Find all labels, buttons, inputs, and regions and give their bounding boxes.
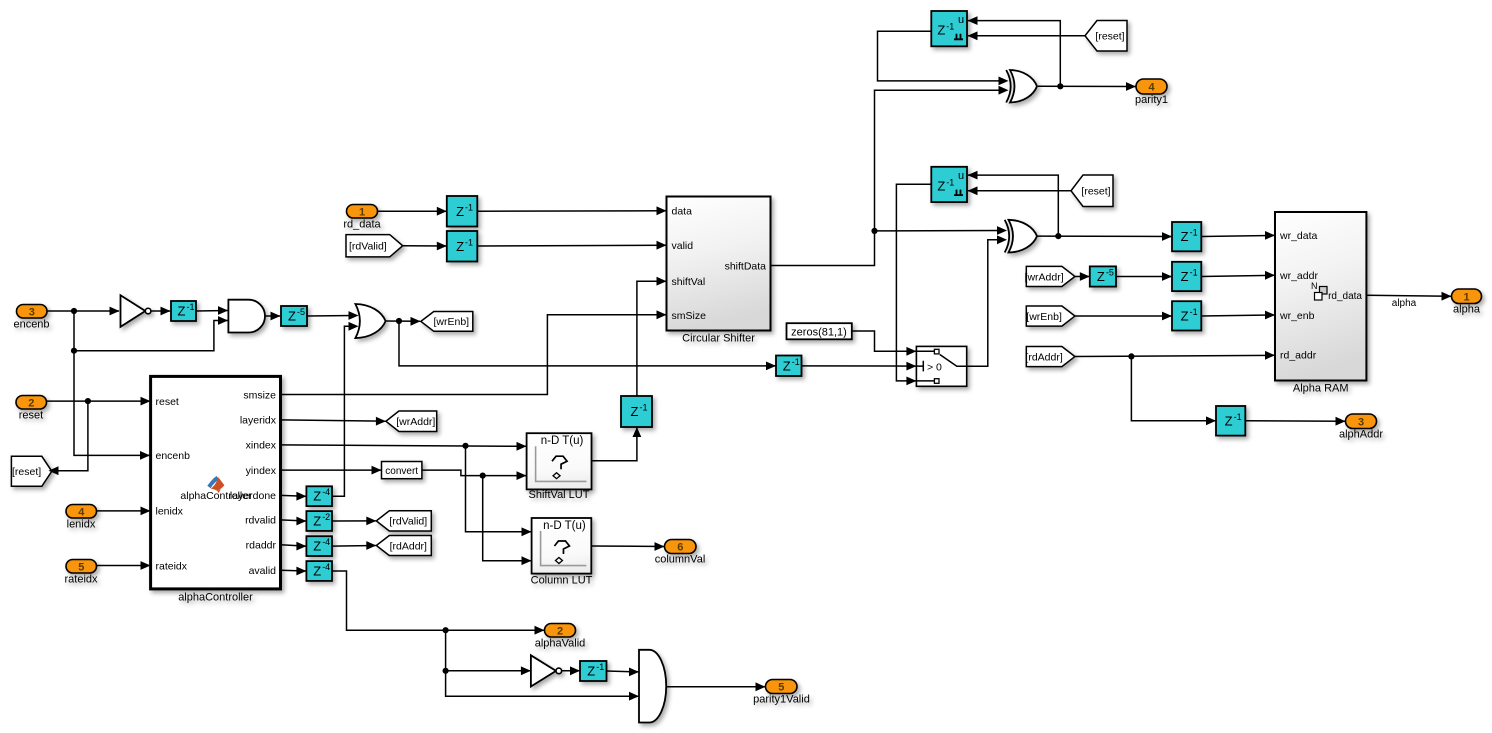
delay Z-1 (rd_data) [447, 196, 478, 227]
wire rd_data to Z-1 [378, 207, 447, 216]
wire encenb to NOT [47, 307, 120, 316]
svg-text:wr_data: wr_data [1279, 230, 1318, 242]
wire shiftData to XOR gates [771, 86, 1009, 266]
wire RAM rd_data to alpha port [1366, 292, 1451, 309]
switch block [916, 346, 966, 386]
svg-text:shiftVal: shiftVal [672, 276, 706, 288]
labels alphaController ports [156, 389, 277, 577]
svg-text:avalid: avalid [249, 565, 277, 577]
svg-text:Z: Z [1181, 269, 1189, 284]
inport 3 encenb [13, 305, 49, 331]
wire Z-1 to RAM wr_addr [1201, 271, 1275, 280]
svg-text:alphaController: alphaController [180, 490, 252, 502]
wire shiftData branch to XOR2 in1 [875, 226, 1008, 235]
svg-text:Z: Z [1181, 308, 1189, 323]
wire XOR2 feedback to delay2 [968, 171, 1059, 236]
svg-text:Z: Z [288, 309, 296, 324]
svg-text:-1: -1 [465, 202, 473, 212]
svg-text:Z: Z [313, 514, 321, 529]
svg-text:Z: Z [783, 358, 791, 373]
delay Z-2 (rdvalid) [306, 511, 332, 531]
svg-text:Z: Z [631, 404, 639, 419]
XOR gate (wr_data accumulator) [1005, 220, 1037, 253]
delay Z-1 (switch control) [776, 356, 802, 377]
XOR gate (parity1 accumulator) [1006, 70, 1037, 103]
goto tag [wrAddr] [386, 411, 437, 432]
wire layeridx to goto wrAddr [281, 417, 386, 426]
outport 4 parity1 [1135, 79, 1168, 106]
goto tag [rdValid] (out) [376, 511, 431, 531]
svg-text:[reset]: [reset] [1095, 31, 1124, 43]
svg-text:2: 2 [28, 397, 34, 409]
svg-text:3: 3 [29, 306, 35, 318]
svg-text:Z: Z [1181, 229, 1189, 244]
svg-text:-4: -4 [322, 562, 330, 572]
wire rdvalid to Z-2 [281, 517, 307, 526]
svg-text:alphaValid: alphaValid [535, 638, 586, 650]
svg-text:lenidx: lenidx [156, 506, 184, 518]
inport 2 reset [16, 396, 47, 422]
wire ShiftVal LUT to rotated Z-1 [592, 427, 642, 461]
svg-text:lenidx: lenidx [67, 519, 96, 531]
svg-text:columnVal: columnVal [655, 554, 706, 566]
wire from wrAddr to Z-5 [1075, 272, 1090, 281]
MATLAB function alphaController [151, 376, 281, 603]
svg-text:-5: -5 [1106, 268, 1114, 278]
outport 5 parity1Valid [753, 680, 810, 706]
svg-text:valid: valid [672, 240, 694, 252]
delay Z-1 (wr_addr) [1172, 262, 1201, 291]
svg-text:[wrAddr]: [wrAddr] [396, 416, 435, 428]
svg-text:-2: -2 [322, 512, 330, 522]
svg-text:n-D T(u): n-D T(u) [541, 435, 584, 447]
subsystem Circular Shifter [667, 197, 771, 345]
svg-text:[rdAddr]: [rdAddr] [1025, 351, 1062, 363]
from tag [rdValid] (in) [346, 235, 403, 257]
wire xindex branch to Column LUT in1 [466, 446, 532, 536]
from tag [wrAddr] (right) [1025, 266, 1075, 286]
svg-text:ShiftVal LUT: ShiftVal LUT [529, 489, 590, 501]
svg-text:[rdAddr]: [rdAddr] [390, 540, 427, 552]
svg-text:encenb: encenb [13, 319, 49, 331]
labels Alpha RAM ports [1279, 230, 1362, 361]
svg-text:4: 4 [78, 506, 85, 518]
svg-text:alphAddr: alphAddr [1339, 429, 1383, 441]
alphaController internal label + MATLAB logo [180, 476, 252, 502]
svg-text:reset: reset [19, 410, 43, 422]
svg-text:5: 5 [778, 682, 784, 694]
NOT gate (avalid inverter) [531, 655, 562, 686]
wire convert to ShiftVal LUT in2 [422, 470, 527, 480]
wire NOT to Z-1 (avalid) [562, 666, 580, 675]
delay Z-5 (after AND) [281, 306, 307, 326]
wire from rdAddr to RAM rd_addr [1075, 351, 1275, 360]
wire Z-1 to AND in1 (parity1Valid) [607, 668, 640, 677]
svg-text:Column LUT: Column LUT [531, 575, 593, 587]
svg-text:[rdValid]: [rdValid] [349, 241, 387, 253]
svg-text:Circular Shifter: Circular Shifter [682, 333, 755, 345]
wire Z-1 to alphAddr port [1245, 417, 1345, 426]
svg-text:-1: -1 [946, 22, 954, 32]
svg-text:-1: -1 [187, 302, 195, 312]
wire Z-5 to OR in1 [307, 311, 359, 320]
wire avalid to Z-4 [281, 567, 307, 576]
wire XOR1 feedback to delay1 [968, 16, 1061, 86]
svg-text:-1: -1 [946, 177, 954, 187]
wire Z-1 to Circular Shifter valid [477, 241, 666, 250]
wire Z-4 to goto rdAddr [332, 541, 376, 550]
svg-text:rd_data: rd_data [343, 219, 381, 231]
subsystem Alpha RAM [1275, 212, 1366, 395]
svg-text:[wrEnb]: [wrEnb] [433, 316, 469, 328]
OR gate (wrEnb) [355, 304, 385, 338]
svg-text:Z: Z [456, 204, 464, 219]
outport 6 columnVal [655, 540, 706, 566]
svg-text:smSize: smSize [672, 310, 707, 322]
wire Z-1 to AND in1 [196, 306, 228, 315]
svg-text:Alpha RAM: Alpha RAM [1293, 383, 1349, 395]
outport 1 alpha [1452, 289, 1482, 316]
labels Circular Shifter ports [672, 206, 767, 322]
svg-text:parity1: parity1 [1135, 94, 1168, 106]
svg-text:u: u [958, 170, 964, 182]
wire Z-5 to Z-1 wr_addr [1116, 272, 1172, 281]
svg-text:-4: -4 [322, 487, 330, 497]
svg-text:-1: -1 [1234, 412, 1242, 422]
svg-text:4: 4 [1148, 82, 1155, 94]
outport 3 alphAddr [1339, 414, 1383, 441]
wire delay2 out to switch in3 [896, 184, 931, 385]
wire OR out branch to switch-ctrl delay [399, 321, 776, 370]
wire Z-1 to RAM wr_data [1201, 231, 1275, 240]
delay Z-4 (layerdone) [306, 486, 332, 506]
delay Z-5 (wrAddr) [1090, 266, 1116, 286]
svg-text:xindex: xindex [246, 440, 277, 452]
svg-text:1: 1 [1463, 291, 1469, 303]
wire switch out to XOR2 in2 [967, 235, 1007, 366]
switch internal glyphs [916, 349, 966, 383]
svg-text:Z: Z [313, 489, 321, 504]
wire layerdone Z-4 to OR in2 [332, 322, 359, 496]
enabled delay Z-1 u (wr_data reg) [931, 167, 967, 202]
delay Z-1 (avalid-not) [580, 661, 607, 681]
svg-text:data: data [672, 206, 693, 218]
AND gate (parity1Valid) [639, 650, 666, 723]
svg-text:Z: Z [313, 539, 321, 554]
svg-text:Z: Z [178, 304, 186, 319]
svg-text:rdvalid: rdvalid [245, 515, 276, 527]
inport 5 rateidx [64, 560, 98, 586]
wire encenb branch to AND in2 [71, 311, 228, 354]
svg-text:[reset]: [reset] [12, 466, 41, 478]
wire rateidx to controller [97, 561, 151, 570]
wire zeros to switch in1 [852, 331, 917, 356]
wire AND to Z-5 [265, 312, 281, 321]
wire yindex to convert [281, 466, 382, 475]
wire encenb branch to controller [74, 351, 150, 460]
svg-text:Z: Z [1097, 269, 1105, 284]
svg-text:1: 1 [359, 206, 365, 218]
svg-text:> 0: > 0 [927, 361, 942, 373]
svg-text:-4: -4 [322, 537, 330, 547]
delay Z-1 (after NOT) [171, 301, 196, 321]
wire smsize to Circular Shifter smSize [281, 310, 667, 394]
wire layerdone to Z-4 [281, 492, 307, 501]
AND gate U1 [228, 300, 265, 333]
NOT gate (encenb inverter) [121, 295, 151, 327]
constant zeros(81,1) [787, 323, 852, 339]
svg-text:Z: Z [937, 23, 945, 38]
wire Z-2 to goto rdValid [332, 517, 376, 526]
svg-text:[wrAddr]: [wrAddr] [1025, 271, 1064, 283]
svg-text:rdaddr: rdaddr [246, 540, 277, 552]
wire reset port to controller [47, 397, 151, 406]
lookup table ShiftVal LUT [527, 433, 592, 501]
svg-text:-1: -1 [1190, 307, 1198, 317]
svg-text:[wrEnb]: [wrEnb] [1026, 311, 1062, 323]
wire rdAddr branch to Z-1 alphAddr [1131, 356, 1216, 425]
goto tag [rdAddr] (out) [376, 536, 431, 556]
svg-text:alpha: alpha [1453, 304, 1481, 316]
svg-text:Z: Z [313, 564, 321, 579]
svg-text:encenb: encenb [156, 450, 191, 462]
from tag [wrEnb] (right) [1026, 306, 1075, 326]
wire rdaddr to Z-4 [281, 542, 307, 551]
svg-text:zeros(81,1): zeros(81,1) [791, 327, 847, 339]
svg-text:-1: -1 [792, 357, 800, 367]
from tag [reset] (mid) [1071, 175, 1113, 207]
data type convert block [382, 462, 422, 479]
wire from rdValid to Z-1 [403, 242, 447, 251]
inport 1 rd_data [343, 205, 381, 231]
svg-text:Z: Z [587, 664, 595, 679]
svg-text:-1: -1 [465, 237, 473, 247]
svg-text:yindex: yindex [246, 465, 277, 477]
wire ShiftValLUT out to columnVal [591, 542, 664, 551]
delay Z-4 (avalid) [306, 561, 332, 581]
svg-text:-5: -5 [297, 307, 305, 317]
delay Z-1 (wr_data) [1172, 222, 1201, 251]
wire delay1 out to XOR1 in1 [878, 31, 1009, 85]
wire XOR1 out to parity1 [1038, 82, 1136, 91]
svg-text:[rdValid]: [rdValid] [389, 516, 427, 528]
from tag [rdAddr] (right) [1025, 347, 1074, 367]
from tag [reset] (top) [1085, 21, 1127, 52]
svg-text:Z: Z [1225, 413, 1233, 428]
wire lenidx to controller [97, 507, 151, 516]
wire avalid Z-4 to alphaValid [332, 571, 545, 635]
wire AND to parity1Valid port [666, 682, 765, 691]
svg-text:6: 6 [677, 542, 683, 554]
wire convert branch to Column LUT in2 [483, 476, 532, 565]
wire OR out to goto wrEnb [386, 317, 421, 326]
wire reset branch to goto reset [49, 401, 88, 475]
wire rotated Z-1 to shiftVal [637, 277, 667, 396]
svg-text:u: u [958, 14, 964, 26]
enabled delay Z-1 u (parity1 reg) [931, 11, 967, 46]
wire from reset to delay1 R [968, 31, 1086, 40]
wire Z-1 to RAM wr_enb [1201, 311, 1275, 320]
wire from wrEnb to Z-1 [1075, 312, 1172, 321]
svg-text:Z: Z [456, 239, 464, 254]
goto tag [wrEnb] [421, 312, 473, 332]
svg-text:2: 2 [557, 625, 563, 637]
wire avalid branch to AND in2 [446, 671, 639, 701]
svg-text:5: 5 [78, 561, 84, 573]
svg-text:reset: reset [156, 396, 179, 408]
svg-text:wr_enb: wr_enb [1279, 310, 1315, 322]
svg-text:-1: -1 [640, 403, 648, 413]
delay Z-4 (rdaddr) [306, 536, 332, 556]
svg-text:rateidx: rateidx [64, 574, 98, 586]
inport 4 lenidx [66, 505, 97, 531]
svg-text:-1: -1 [596, 662, 604, 672]
svg-text:alphaController: alphaController [178, 592, 253, 604]
wire NOT to Z-1 [152, 307, 171, 316]
svg-text:3: 3 [1358, 416, 1364, 428]
svg-text:rd_addr: rd_addr [1280, 349, 1317, 361]
svg-text:-1: -1 [1190, 267, 1198, 277]
delay Z-1 (rdValid) [447, 231, 478, 262]
wire ctrl delay to switch in2 [802, 362, 917, 371]
RAM rd_data matrix icon [1311, 281, 1327, 300]
svg-text:N: N [1311, 281, 1318, 291]
lookup table Column LUT [531, 518, 593, 587]
svg-text:[reset]: [reset] [1081, 186, 1110, 198]
svg-text:smsize: smsize [243, 389, 276, 401]
delay Z-1 (shiftVal, rotated) [621, 396, 652, 427]
wire xindex to ShiftVal LUT in1 [281, 442, 527, 451]
wire Z-1 to Circular Shifter data [477, 206, 666, 215]
svg-text:parity1Valid: parity1Valid [753, 694, 810, 706]
svg-text:rd_data: rd_data [1328, 291, 1362, 302]
goto tag [reset] (left) [11, 456, 51, 486]
svg-text:Z: Z [937, 178, 945, 193]
outport 2 alphaValid [535, 624, 586, 650]
delay Z-1 (alphAddr) [1216, 406, 1245, 436]
svg-text:shiftData: shiftData [725, 260, 767, 272]
svg-text:convert: convert [385, 466, 418, 477]
svg-text:layeridx: layeridx [240, 415, 277, 427]
svg-text:rateidx: rateidx [156, 560, 188, 572]
svg-text:-1: -1 [1190, 228, 1198, 238]
svg-text:n-D T(u): n-D T(u) [543, 520, 586, 532]
svg-text:alpha: alpha [1392, 298, 1417, 309]
wire from reset to delay2 R [968, 186, 1072, 195]
wire avalid branch to NOT [443, 630, 531, 675]
wire XOR2 out to Z-1 wr_data [1038, 232, 1173, 241]
delay Z-1 (wr_enb) [1172, 301, 1201, 330]
